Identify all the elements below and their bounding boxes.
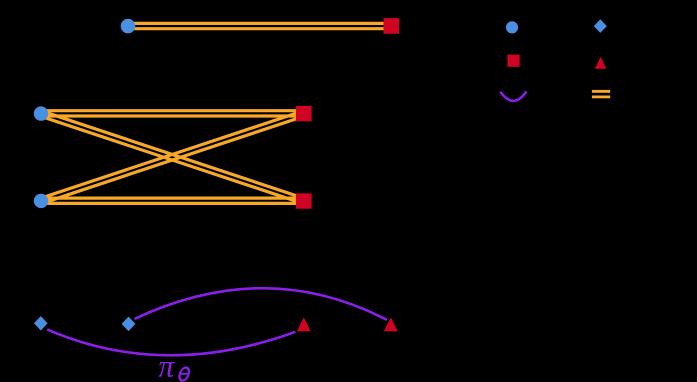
node: bottom blue diamond 2	[122, 317, 136, 332]
wire: top-row double edge (prompt to response)	[130, 23, 389, 28]
wire: middle horizontal double edge (upper)	[43, 111, 303, 116]
wire: upper purple arc (diamond2 to triangle2)	[135, 288, 387, 320]
label: pi_theta (theta subscript glyph)	[178, 368, 190, 381]
svg-text:π: π	[158, 349, 175, 382]
node: middle lower red square	[296, 193, 312, 208]
node: middle upper red square	[296, 106, 312, 121]
node: middle upper blue circle	[34, 106, 48, 120]
legend marker: purple arc	[500, 91, 526, 101]
node: top blue circle	[121, 19, 136, 34]
legend marker: blue diamond	[594, 19, 607, 33]
node: bottom red triangle 2	[384, 317, 398, 331]
node: bottom red triangle 1	[297, 317, 311, 331]
legend marker: blue circle	[506, 21, 518, 33]
wire: middle diagonal double edge (upper-left to lower-right)	[40, 111, 304, 203]
legend marker: red square	[507, 55, 519, 67]
wire: lower purple arc (diamond1 to triangle1)	[47, 329, 295, 355]
wire: middle horizontal double edge (lower)	[43, 198, 303, 203]
node: middle lower blue circle	[34, 194, 48, 208]
node: top red square	[384, 18, 400, 34]
legend marker: red triangle	[595, 57, 607, 69]
wire: middle diagonal double edge (lower-left to upper-right)	[40, 111, 304, 203]
legend marker: orange double line (equals)	[592, 90, 610, 98]
node: bottom blue diamond 1	[34, 316, 48, 330]
